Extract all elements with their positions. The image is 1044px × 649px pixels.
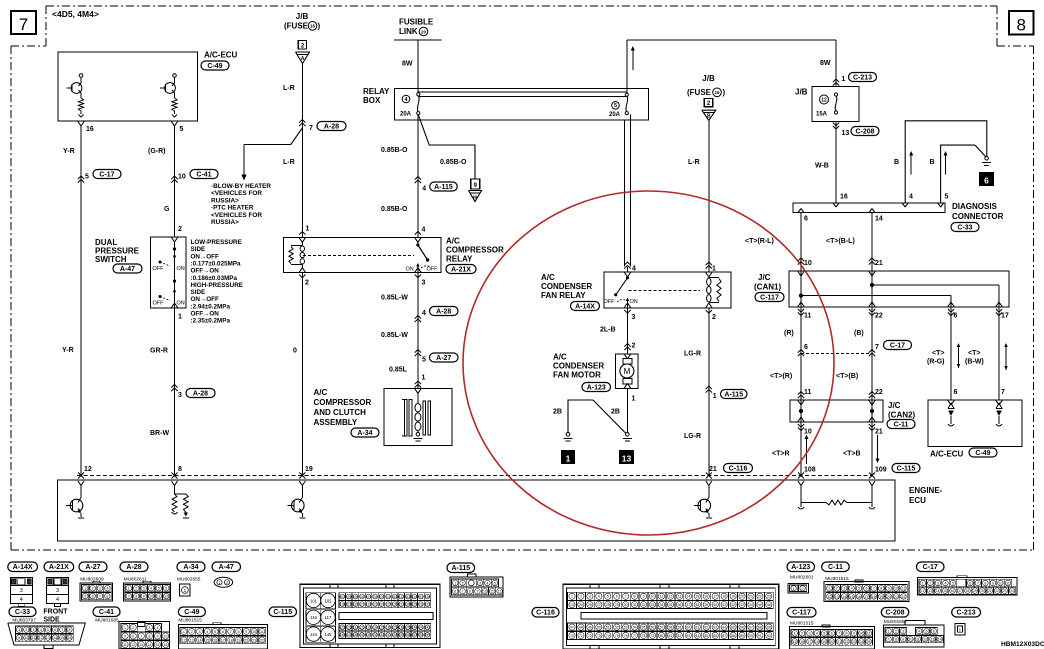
connector drawing C-17 [918,577,1017,595]
svg-text:MU802655: MU802655 [177,577,201,583]
svg-text:RELAY: RELAY [363,87,390,96]
svg-text:24: 24 [1010,589,1014,593]
svg-text:AND CLUTCH: AND CLUTCH [314,408,367,417]
svg-text:B: B [894,159,899,166]
svg-text:22: 22 [875,313,883,320]
svg-text:A-115: A-115 [434,184,453,191]
svg-text:1: 1 [18,628,20,632]
svg-text:48: 48 [579,626,583,630]
svg-text:J/B: J/B [702,74,715,83]
svg-text:8: 8 [1016,16,1025,35]
svg-text:108: 108 [372,595,378,599]
connector drawing A-115 [450,577,503,597]
svg-text:120: 120 [353,603,359,607]
svg-text:106: 106 [359,595,365,599]
svg-text:114: 114 [412,595,417,599]
svg-text:22: 22 [875,389,883,396]
A/C condenser fan relay A-14X box [604,272,731,308]
svg-text:A-27: A-27 [436,355,451,362]
connector 13 C-208 [833,123,839,126]
svg-text:18: 18 [229,638,233,642]
svg-text:74: 74 [606,634,610,638]
svg-text:7: 7 [875,344,879,351]
svg-text:17: 17 [221,638,225,642]
svg-text:12: 12 [921,589,925,593]
svg-text:12: 12 [827,595,831,599]
svg-text:7: 7 [838,632,840,636]
svg-text:<T>R: <T>R [772,451,790,458]
connector drawing C-115 large [300,584,440,647]
svg-text:15: 15 [155,643,159,647]
svg-text:138: 138 [399,626,405,630]
connector label C-17 [917,562,945,572]
svg-text:16: 16 [86,126,94,133]
svg-text:107: 107 [366,595,372,599]
svg-text:8: 8 [148,634,150,638]
svg-text:13: 13 [622,453,632,463]
svg-text:3: 3 [33,628,35,632]
svg-text:A-28: A-28 [324,123,339,130]
svg-text:73: 73 [597,634,601,638]
svg-text:16: 16 [840,194,848,201]
svg-text:63: 63 [713,626,717,630]
svg-text:8: 8 [846,632,848,636]
svg-text:34: 34 [660,603,664,607]
svg-text:4: 4 [150,587,152,591]
svg-text:<T>B: <T>B [843,451,861,458]
svg-text:8: 8 [69,628,71,632]
svg-text:0: 0 [293,348,297,355]
svg-text:0.85L-W: 0.85L-W [381,332,408,339]
svg-text:43: 43 [740,603,744,607]
svg-text:159: 159 [425,633,431,637]
svg-text:3: 3 [422,280,426,287]
svg-text:15: 15 [793,640,797,644]
svg-text:RUSSIA>: RUSSIA> [211,197,239,204]
svg-text:BOX: BOX [363,96,381,105]
svg-text::0.177±0.025MPa: :0.177±0.025MPa [191,260,242,267]
svg-text:11: 11 [867,632,871,636]
svg-text:67: 67 [749,626,753,630]
svg-text:16: 16 [310,24,316,29]
ECU resistor pair pin 8 [172,481,175,486]
fan relay switch contact [624,272,627,277]
svg-text:16: 16 [951,589,955,593]
svg-text:45: 45 [758,603,762,607]
svg-text:0.85B-O: 0.85B-O [440,159,467,166]
svg-text:145: 145 [325,632,333,637]
svg-text:70: 70 [570,634,574,638]
connector label C-213 [952,608,981,618]
svg-text:13: 13 [842,130,850,137]
svg-text:69: 69 [767,626,771,630]
svg-text:22: 22 [845,640,849,644]
svg-text:156: 156 [405,633,411,637]
svg-text:22: 22 [260,638,264,642]
svg-text:DIAGNOSIS: DIAGNOSIS [952,202,998,211]
svg-text:14: 14 [686,595,690,599]
svg-text:C-33: C-33 [957,224,972,231]
svg-text:1: 1 [632,396,636,403]
svg-text:G: G [164,206,170,213]
svg-text:23: 23 [767,595,771,599]
page number box 7 [11,11,36,34]
svg-text:7: 7 [309,125,313,132]
svg-text:124: 124 [379,603,385,607]
svg-text:A-28: A-28 [436,308,451,315]
svg-text:5: 5 [614,103,617,109]
engine ECU box [58,480,896,541]
svg-text:C-208: C-208 [855,128,874,135]
svg-text:C-117: C-117 [792,610,811,617]
connector 4 A-28 [415,316,421,319]
svg-text:19: 19 [822,640,826,644]
svg-text:21: 21 [709,466,717,473]
svg-text:121: 121 [359,603,365,607]
svg-text:4: 4 [422,310,426,317]
svg-text:A-115: A-115 [451,565,470,572]
svg-text:3: 3 [148,626,150,630]
svg-text:117: 117 [325,615,332,620]
svg-text:123: 123 [372,603,378,607]
svg-text:40: 40 [713,603,717,607]
svg-text:FRONT: FRONT [43,609,68,616]
svg-text:39: 39 [704,603,708,607]
svg-text:7: 7 [61,628,63,632]
svg-text:8: 8 [895,638,897,642]
svg-text:9: 9 [888,587,890,591]
svg-text:146: 146 [340,633,346,637]
svg-text:62: 62 [704,626,708,630]
svg-text:1: 1 [128,587,130,591]
svg-text:LINK: LINK [399,27,418,36]
svg-text:3: 3 [20,588,23,594]
connector label A-27 [79,562,107,572]
svg-text:COMPRESSOR: COMPRESSOR [446,246,504,255]
diagnosis connector C-33 box [793,203,945,213]
svg-text:9: 9 [643,595,645,599]
svg-text:6: 6 [954,389,958,396]
svg-text:A-34: A-34 [183,564,198,571]
svg-text:18: 18 [872,595,876,599]
svg-text:): ) [318,22,321,31]
svg-text:L-R: L-R [283,159,295,166]
svg-text:1: 1 [422,375,426,382]
svg-text:44: 44 [749,603,753,607]
svg-text:·PTC HEATER: ·PTC HEATER [211,205,254,212]
svg-text:51: 51 [606,626,610,630]
svg-text:6: 6 [54,628,56,632]
svg-text:1: 1 [828,587,830,591]
svg-text:5: 5 [124,634,126,638]
ground wires B from diagnosis pins 4 5 [905,121,987,203]
svg-text:7: 7 [888,638,890,642]
svg-text:12: 12 [39,636,43,640]
svg-text:C-11: C-11 [894,421,909,428]
J/C CAN2 C-11 box [790,400,883,422]
svg-text:13: 13 [677,595,681,599]
svg-text:11: 11 [804,313,812,320]
svg-text:3: 3 [937,581,939,585]
svg-text:6: 6 [804,216,808,223]
svg-text:10: 10 [909,638,913,642]
red highlight ellipse [463,191,834,535]
svg-text:8: 8 [880,587,882,591]
svg-text:79: 79 [651,634,655,638]
svg-text:(G-R): (G-R) [148,148,166,155]
connector 10 C-41 on wire [171,176,177,179]
svg-text:6: 6 [165,587,167,591]
svg-text:21: 21 [988,589,992,593]
svg-text:104: 104 [346,595,352,599]
svg-text:<T>(R-L): <T>(R-L) [745,238,774,245]
svg-text:OFF: OFF [604,299,616,305]
svg-text:53: 53 [624,626,628,630]
svg-text:16: 16 [68,636,72,640]
svg-text:22: 22 [901,595,905,599]
svg-text:139: 139 [405,626,411,630]
svg-text:C-117: C-117 [760,294,779,301]
svg-text:61: 61 [695,626,699,630]
svg-text:4: 4 [106,587,108,591]
svg-text:A-28: A-28 [126,564,141,571]
svg-text:21: 21 [837,640,841,644]
svg-text:FUSIBLE: FUSIBLE [399,18,434,27]
svg-text:111: 111 [392,595,397,599]
svg-text:OFF: OFF [153,301,165,307]
svg-text:12: 12 [923,638,927,642]
svg-text:109: 109 [379,595,385,599]
svg-text:C-17: C-17 [923,564,938,571]
connector label C-49 [178,607,205,617]
svg-text:1: 1 [566,453,571,463]
wires T R and T B to engine ECU [800,422,802,476]
svg-text:1: 1 [183,630,185,634]
svg-text:6: 6 [454,590,456,594]
svg-text:8W: 8W [402,61,413,68]
svg-text:21: 21 [875,429,883,436]
svg-text:1: 1 [713,393,717,400]
svg-text:31: 31 [633,603,637,607]
svg-text:2: 2 [580,595,582,599]
svg-text:37: 37 [686,603,690,607]
svg-text:8: 8 [178,466,182,473]
svg-text:(FUSE: (FUSE [284,22,309,31]
svg-text:17: 17 [864,595,868,599]
svg-text:9: 9 [476,590,478,594]
svg-text:158: 158 [418,633,424,637]
svg-text:RELAY: RELAY [446,255,473,264]
connector label A-115 [447,563,475,573]
svg-text:148: 148 [353,633,359,637]
svg-text:C-49: C-49 [207,63,222,70]
svg-text:16: 16 [704,595,708,599]
svg-text:2: 2 [305,280,309,287]
connector drawing A-47 oval [214,577,233,587]
svg-text:A: A [301,56,305,62]
svg-text:6: 6 [222,630,224,634]
wire G-R / G column [174,126,176,237]
svg-text:15A: 15A [816,112,828,118]
svg-text:2: 2 [178,226,182,233]
svg-text:2: 2 [25,628,27,632]
svg-text:13: 13 [930,638,934,642]
svg-text:10: 10 [252,630,256,634]
svg-text:RUSSIA>: RUSSIA> [211,219,239,226]
svg-text:7: 7 [19,15,28,34]
svg-text:C-17: C-17 [890,342,905,349]
svg-text:24: 24 [859,640,863,644]
svg-text:7: 7 [873,587,875,591]
svg-text:<VEHICLES FOR: <VEHICLES FOR [211,212,262,219]
wire 8W right [835,40,837,87]
svg-text:14: 14 [147,643,151,647]
svg-text:<T>: <T> [968,350,980,357]
wire Y-R left column [80,126,82,476]
connector 5 C-17 on Y-R wire [78,176,84,179]
svg-text:12: 12 [131,643,135,647]
svg-text:OFF: OFF [153,266,165,272]
black square 1 [562,451,575,464]
svg-text:26: 26 [588,603,592,607]
svg-text:35: 35 [669,603,673,607]
svg-text:MU801515: MU801515 [178,618,202,624]
wire 2B to ground 13 [627,388,629,432]
svg-text:3: 3 [99,587,101,591]
svg-text:11: 11 [157,595,161,599]
svg-text:17: 17 [1001,313,1009,320]
svg-text:102: 102 [325,598,333,603]
svg-text:19: 19 [879,595,883,599]
svg-text:5: 5 [158,587,160,591]
svg-text:5: 5 [180,126,184,133]
svg-text:131: 131 [425,603,431,607]
svg-text:5: 5 [945,194,949,201]
svg-text:1: 1 [794,632,796,636]
svg-text:4: 4 [918,630,920,634]
svg-text:18: 18 [966,589,970,593]
svg-text:C-49: C-49 [184,609,199,616]
svg-text:SIDE: SIDE [191,246,206,253]
svg-text:75: 75 [615,634,619,638]
svg-text:10: 10 [24,636,28,640]
svg-text:A-28: A-28 [193,390,208,397]
svg-text:125: 125 [385,603,391,607]
svg-text:16: 16 [213,638,217,642]
svg-text:2: 2 [191,630,193,634]
svg-text:24: 24 [570,603,574,607]
svg-text:CONDENSER: CONDENSER [541,282,592,291]
pin 4 of fan relay [624,262,630,265]
svg-text:A-47: A-47 [120,266,135,273]
svg-text:A-115: A-115 [724,391,743,398]
svg-text:2: 2 [92,587,94,591]
svg-text:3: 3 [809,632,811,636]
svg-text:14: 14 [842,595,846,599]
svg-text:91: 91 [758,634,762,638]
svg-text:C-17: C-17 [99,171,114,178]
svg-text:HIGH-PRESSURE: HIGH-PRESSURE [191,282,243,289]
svg-text:(CAN1): (CAN1) [754,283,781,292]
svg-text:22: 22 [758,595,762,599]
svg-text:20A: 20A [400,112,412,118]
svg-text:12: 12 [164,595,168,599]
svg-text:12: 12 [84,466,92,473]
svg-text:C-41: C-41 [196,171,211,178]
svg-text:1: 1 [84,587,86,591]
ECU transistor pin 12 [78,481,81,486]
svg-text:A-34: A-34 [357,430,372,437]
svg-text:59: 59 [677,626,681,630]
termination symbol pin6 [948,403,954,409]
svg-text:A/C: A/C [541,273,555,282]
svg-text:MU802601: MU802601 [790,574,814,580]
svg-text:4: 4 [156,626,158,630]
svg-text:21: 21 [252,638,256,642]
wire L-R down to fan relay coil [708,120,710,272]
svg-text:3: 3 [56,588,59,594]
svg-text:0.85B-O: 0.85B-O [381,206,408,213]
svg-text:21: 21 [875,260,883,267]
svg-text:56: 56 [651,626,655,630]
connector label C-33 [9,607,36,617]
svg-text:10: 10 [998,581,1002,585]
top horizontal wire to J/B 12 [627,39,836,41]
svg-text:5: 5 [823,632,825,636]
svg-text:4: 4 [20,597,23,603]
svg-text:28: 28 [606,603,610,607]
svg-text:11: 11 [260,630,264,634]
pin 16 [78,121,81,126]
svg-text:13: 13 [139,643,143,647]
wire L-R from J/B fuse16 [301,64,303,238]
svg-text:GR-R: GR-R [150,348,168,355]
svg-text:16: 16 [164,643,168,647]
svg-text:L-R: L-R [688,159,700,166]
svg-text:78: 78 [642,634,646,638]
svg-text:A/C: A/C [314,388,328,397]
svg-text:6: 6 [865,587,867,591]
svg-text:6: 6 [933,630,935,634]
svg-text:2: 2 [226,581,228,585]
svg-text:10: 10 [804,429,812,436]
svg-text:3: 3 [589,595,591,599]
svg-text:5: 5 [47,628,49,632]
svg-text:C-115: C-115 [273,609,292,616]
ECU transistor pin 19 [299,481,302,486]
svg-text:FAN RELAY: FAN RELAY [541,291,586,300]
svg-text:33: 33 [651,603,655,607]
clutch symbol inside A-34 [415,388,418,393]
svg-text:142: 142 [425,626,431,630]
wires to A/C-ECU right [950,307,952,400]
svg-text:131: 131 [353,626,359,630]
svg-text:129: 129 [412,603,418,607]
svg-text:128: 128 [405,603,411,607]
CAN1 internal bus [800,271,802,307]
svg-text:SWITCH: SWITCH [95,255,127,264]
svg-text:11: 11 [123,643,127,647]
connector drawing A-14X [10,578,32,604]
svg-text:CONDENSER: CONDENSER [553,362,604,371]
svg-text:4: 4 [944,581,946,585]
A/C compressor relay A-21X box [284,237,442,272]
svg-text:9: 9 [156,634,158,638]
svg-text:16: 16 [714,90,720,95]
clutch ground [417,431,419,433]
svg-text:42: 42 [731,603,735,607]
svg-text:103: 103 [340,595,346,599]
